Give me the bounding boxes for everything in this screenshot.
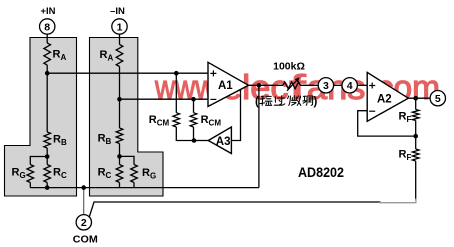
wire 100k to pin3 bbox=[300, 84, 318, 86]
pin 2 bbox=[76, 215, 91, 230]
node A1+ junction bbox=[45, 71, 50, 76]
op-amp A1 bbox=[208, 62, 249, 106]
node RCM1 tap bbox=[174, 71, 179, 76]
svg-text:–IN: –IN bbox=[110, 6, 125, 17]
svg-text:RCM: RCM bbox=[149, 114, 170, 128]
pin 3 bbox=[318, 78, 333, 93]
wire A1 output down to A3 input bbox=[231, 88, 240, 141]
pin 8 bbox=[40, 19, 55, 34]
svg-text:A3: A3 bbox=[216, 136, 231, 148]
svg-text:(: ( bbox=[255, 96, 259, 108]
wire node4 right to RG (right block) bbox=[120, 156, 135, 164]
pin 5 bbox=[430, 91, 445, 106]
vertical drop from A1 output to rail bbox=[258, 85, 260, 187]
node RF junction bbox=[413, 134, 418, 139]
wire node to A1 + input bbox=[47, 72, 208, 74]
wire node2 left to RG (left block) bbox=[30, 157, 47, 165]
wire A1 output to 100k bbox=[248, 84, 283, 86]
node RCM2 tap bbox=[191, 97, 196, 102]
wire pin8 to RA bbox=[46, 35, 48, 44]
wire RCM1 bottom to A3 output node bbox=[176, 127, 194, 141]
svg-text:A2: A2 bbox=[377, 94, 392, 106]
node A1- junction bbox=[117, 97, 122, 102]
wire RCM2 bottom bbox=[193, 127, 195, 141]
input attenuator block 1 (left, +IN network) bbox=[5, 38, 77, 197]
wire A2 output to pin5 bbox=[408, 97, 430, 99]
wire A3 output to node bbox=[194, 140, 208, 142]
pin 4 bbox=[342, 78, 357, 93]
wire COM node down to pin2 bbox=[83, 188, 85, 215]
node RB/RC/RG left bbox=[45, 154, 50, 159]
svg-text:): ) bbox=[314, 96, 318, 108]
node RC bottom left bbox=[45, 185, 50, 190]
resistor RC (right block) bbox=[116, 165, 123, 183]
node A3 output bbox=[192, 138, 197, 143]
wire pin3 to pin4 bbox=[334, 84, 342, 86]
svg-text:RF: RF bbox=[399, 149, 412, 163]
svg-text:3: 3 bbox=[323, 80, 329, 92]
100k trimmed resistor bbox=[283, 82, 300, 89]
resistor RB (left block) bbox=[44, 132, 51, 148]
wire RA to node3 and down to RB (right block) bbox=[119, 67, 121, 129]
wire RA to node bbox=[46, 65, 48, 73]
wire RG bottom to rail (right block) bbox=[133, 183, 135, 188]
wire A2 output node down to RF1 bbox=[415, 98, 417, 109]
input attenuator block 2 (right, -IN network) bbox=[90, 38, 164, 197]
svg-text:8: 8 bbox=[44, 21, 50, 33]
resistor RCM1 bbox=[173, 113, 180, 127]
resistor RF1 bbox=[412, 110, 419, 121]
wire RF1 to node bbox=[415, 121, 417, 137]
resistor RB (right block) bbox=[116, 128, 123, 144]
node A2 output bbox=[413, 96, 418, 101]
wire node2 down to RC (left block) bbox=[46, 157, 48, 165]
svg-text:A1: A1 bbox=[218, 80, 233, 92]
gray corner segment of bottom rail bbox=[379, 199, 416, 203]
resistor RA (left block) bbox=[44, 43, 51, 65]
resistor RG (left block) bbox=[27, 165, 34, 183]
svg-text:5: 5 bbox=[435, 93, 441, 105]
svg-text:COM: COM bbox=[73, 235, 98, 246]
svg-text:1: 1 bbox=[117, 21, 123, 33]
svg-text:100kΩ: 100kΩ bbox=[273, 61, 305, 73]
svg-text:RCM: RCM bbox=[201, 114, 222, 128]
wire pin1 to RA (right block) bbox=[119, 35, 121, 45]
node A1 output bbox=[257, 83, 262, 88]
pin 1 bbox=[112, 19, 127, 34]
svg-text:+IN: +IN bbox=[40, 6, 55, 17]
RCM2 top connection to - wire bbox=[193, 99, 195, 113]
svg-text:RF: RF bbox=[399, 111, 412, 125]
wire node down to RB (left block) bbox=[46, 73, 48, 132]
resistor RG (right block) bbox=[131, 165, 138, 183]
svg-text:4: 4 bbox=[347, 80, 353, 92]
wire node4 down to RC (right block) bbox=[119, 156, 121, 164]
resistor RC (left block) bbox=[44, 165, 51, 183]
resistor RCM2 bbox=[190, 113, 197, 127]
wire RB to node2 bbox=[46, 148, 48, 157]
common network rail: RG/RC bottoms to COM node to A1 output drop bbox=[30, 187, 259, 189]
wire pin4 to A2 + input bbox=[358, 84, 368, 86]
node RB/RC/RG right bbox=[117, 154, 122, 159]
op-amp A3 (buffer, points left) bbox=[208, 127, 231, 154]
svg-text:AD8202: AD8202 bbox=[298, 164, 344, 180]
wire RB to node4 bbox=[119, 144, 121, 157]
wire RG bottom to rail bbox=[29, 183, 31, 188]
resistor RF2 bbox=[412, 149, 419, 161]
svg-text:2: 2 bbox=[81, 217, 87, 229]
trim arrow bbox=[287, 80, 298, 91]
A2 feedback wire bbox=[358, 111, 416, 136]
wire RC bottom (right block) bbox=[119, 183, 121, 188]
wire RC bottom bbox=[46, 183, 48, 188]
resistor RA (right block) bbox=[116, 45, 123, 67]
node COM junction bbox=[81, 185, 86, 190]
wire node down to RF2 bbox=[415, 136, 417, 149]
op-amp A2 bbox=[367, 72, 408, 121]
wire node3 to A1 - input bbox=[120, 98, 209, 100]
RCM1 top connection to + wire bbox=[175, 73, 177, 113]
wire RF2 down to bottom rail, rail to COM diagonal bbox=[415, 161, 417, 200]
